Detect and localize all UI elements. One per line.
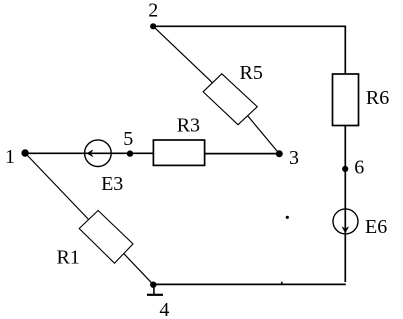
- node 6: [342, 166, 348, 172]
- resistor R5: [203, 74, 257, 125]
- svg-text:R3: R3: [177, 115, 200, 137]
- source E6: [333, 209, 358, 234]
- wire top-right corner down to R6: [344, 26, 346, 75]
- stray dot: [286, 216, 289, 219]
- wire node1 to R1: [25, 153, 89, 220]
- node 1: [21, 149, 28, 156]
- svg-text:6: 6: [354, 156, 364, 178]
- arrow of E6 pointing down: [342, 227, 348, 232]
- node 2: [150, 23, 156, 29]
- svg-text:1: 1: [5, 146, 15, 168]
- node 3: [276, 150, 283, 157]
- ground stem at node 4: [153, 285, 155, 295]
- node 5: [127, 150, 133, 156]
- node 4: [150, 282, 156, 288]
- svg-text:5: 5: [123, 128, 133, 150]
- svg-text:R5: R5: [240, 62, 263, 84]
- svg-text:R1: R1: [57, 246, 80, 268]
- tick on bottom wire: [281, 282, 283, 284]
- svg-text:E6: E6: [365, 216, 387, 238]
- wire R1 to node4: [124, 254, 154, 285]
- wire node2 to R5: [153, 26, 212, 83]
- svg-text:4: 4: [159, 299, 169, 319]
- svg-text:E3: E3: [101, 173, 123, 195]
- wire R6 through node 6 and E6 down to bottom: [344, 125, 346, 282]
- resistor R3: [153, 140, 204, 165]
- resistor R1: [79, 211, 133, 264]
- source E3: [85, 140, 112, 167]
- resistor R6: [333, 74, 359, 126]
- svg-text:3: 3: [289, 147, 299, 169]
- wire R5 to node3: [248, 116, 280, 154]
- svg-text:2: 2: [148, 0, 158, 22]
- wire node1 through E3 and node5 to R3: [25, 152, 153, 154]
- svg-text:R6: R6: [366, 87, 389, 109]
- wire node2 to top-right corner: [153, 25, 345, 27]
- wire bottom from E6 branch to node 4: [153, 283, 345, 285]
- wire R3 to node 3: [205, 153, 280, 155]
- arrow of E3 pointing left: [87, 150, 92, 156]
- ground bar: [147, 294, 163, 296]
